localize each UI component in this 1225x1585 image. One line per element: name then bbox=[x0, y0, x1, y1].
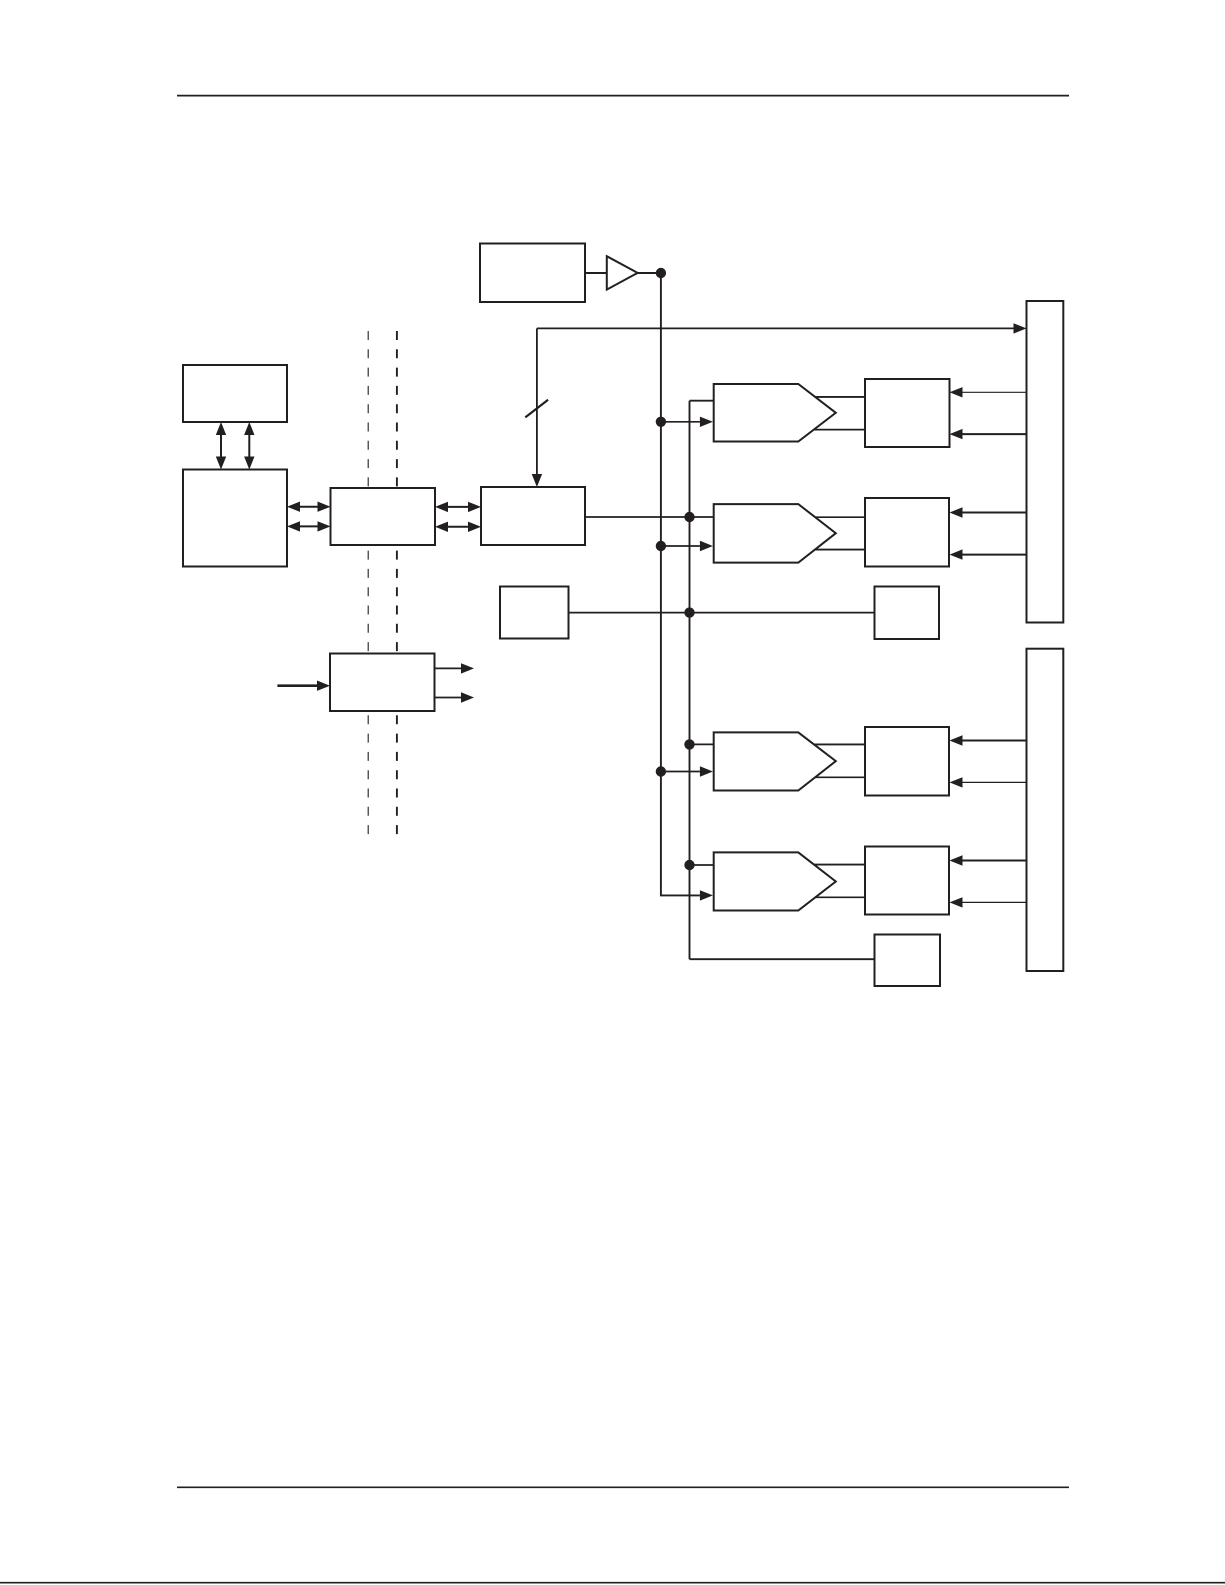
wire: vertical instruction bus x=537 down into box E bbox=[536, 328, 538, 474]
box E (instruction register) bbox=[481, 487, 585, 545]
double arrow B-C right bbox=[248, 435, 250, 458]
double arrow D-E lower bbox=[447, 526, 469, 528]
wire: node to P1 lower input bbox=[661, 421, 700, 423]
wire: box F to box G bbox=[569, 612, 875, 614]
wire: P3 lower output to R3 bbox=[815, 776, 866, 778]
arrowhead into P3 lower input bbox=[700, 766, 713, 776]
wire: T2 to R4 lower control bbox=[962, 901, 1027, 903]
wire: trunk to pentagon P4 upper input bbox=[690, 864, 714, 866]
wire: trunk to pentagon P3 upper input bbox=[690, 743, 714, 745]
wire: trunk top corner into pentagon P1 upper input bbox=[690, 400, 714, 402]
wire: long horizontal to tall box T1 bbox=[537, 327, 1014, 329]
wire: T1 to R1 lower control bbox=[962, 433, 1027, 435]
box A (oscillator) bbox=[480, 244, 585, 303]
double arrow C-D upper bbox=[299, 506, 319, 508]
wire: clock vertical trunk x=661 with corner into pentagon P4 lower input bbox=[661, 273, 700, 895]
box G bbox=[875, 587, 940, 640]
tall box T1 bbox=[1027, 301, 1064, 623]
pentagon P3 bbox=[714, 732, 836, 790]
bus slash (width marker) on instruction bus bbox=[525, 400, 548, 418]
wire: T1 to R2 lower control bbox=[962, 554, 1027, 556]
box C bbox=[183, 470, 287, 567]
wire: T1 to R1 upper control bbox=[962, 391, 1027, 393]
tall box T2 bbox=[1027, 649, 1064, 971]
wire: P1 upper output to R1 bbox=[815, 396, 866, 398]
wire: vertical trunk x=689.5 bbox=[689, 401, 691, 960]
wire: P2 upper output to R2 bbox=[815, 516, 866, 518]
box I (control) bbox=[330, 654, 435, 712]
wire: P4 lower output to R4 bbox=[815, 896, 866, 898]
wire: T2 to R3 lower control bbox=[962, 781, 1027, 783]
clock buffer triangle bbox=[607, 256, 638, 289]
wire: box E output to pentagon P2 upper input bbox=[585, 516, 714, 518]
arrowhead into P1 lower input bbox=[700, 417, 713, 427]
wire: P3 upper output to R3 bbox=[814, 743, 865, 745]
double arrow B-C left bbox=[220, 435, 222, 458]
junction node P2 lower bbox=[656, 541, 666, 551]
register R4 bbox=[865, 847, 949, 915]
wire: T2 to R4 upper control bbox=[962, 860, 1027, 862]
register R3 bbox=[865, 727, 949, 796]
arrowhead into box E top bbox=[532, 474, 542, 487]
wire: box A to buffer bbox=[585, 272, 607, 274]
double arrow D-E upper bbox=[447, 506, 469, 508]
arrowhead into T1 bbox=[1014, 323, 1027, 333]
page bottom edge bbox=[0, 1582, 1225, 1584]
header rule bbox=[177, 95, 1069, 97]
pentagon P2 bbox=[714, 504, 836, 562]
junction node on clock line bbox=[656, 268, 666, 278]
box D (bus interface) bbox=[331, 488, 436, 545]
pentagon P1 bbox=[714, 384, 836, 442]
wire: node to P3 lower input bbox=[661, 771, 700, 773]
box H bbox=[875, 935, 941, 987]
box F bbox=[500, 587, 569, 639]
junction node bus-F line bbox=[684, 607, 694, 617]
wire: T2 to R3 upper control bbox=[962, 740, 1027, 742]
dashed boundary line (thick) bbox=[396, 331, 398, 841]
wire: T1 to R2 upper control bbox=[962, 512, 1027, 514]
junction node P3 upper bbox=[684, 739, 694, 749]
register R1 bbox=[865, 379, 950, 447]
junction node P3 lower bbox=[656, 766, 666, 776]
box I upper output arrow bbox=[435, 667, 462, 669]
box B bbox=[183, 365, 287, 422]
dashed boundary line (thin) bbox=[367, 331, 369, 841]
register R2 bbox=[865, 498, 949, 567]
wire: P4 upper output to R4 bbox=[814, 864, 865, 866]
junction node P1 lower bbox=[656, 417, 666, 427]
wire: node to P2 lower input bbox=[661, 545, 700, 547]
arrowhead into P2 lower input bbox=[700, 541, 713, 551]
wire: trunk bottom corner to box H bbox=[690, 958, 875, 960]
wire: buffer output to node bbox=[638, 272, 661, 274]
junction node bus-E line bbox=[684, 512, 694, 522]
box I lower output arrow bbox=[435, 697, 462, 699]
junction node P4 upper bbox=[684, 860, 694, 870]
wire: P1 lower output to R1 bbox=[814, 429, 865, 431]
footer rule bbox=[177, 1486, 1069, 1488]
double arrow C-D lower bbox=[299, 525, 319, 527]
arrowhead into P4 lower input bbox=[700, 890, 713, 900]
bold input arrow into box I bbox=[277, 684, 318, 687]
pentagon P4 bbox=[714, 852, 836, 910]
wire: P2 lower output to R2 bbox=[815, 549, 866, 551]
